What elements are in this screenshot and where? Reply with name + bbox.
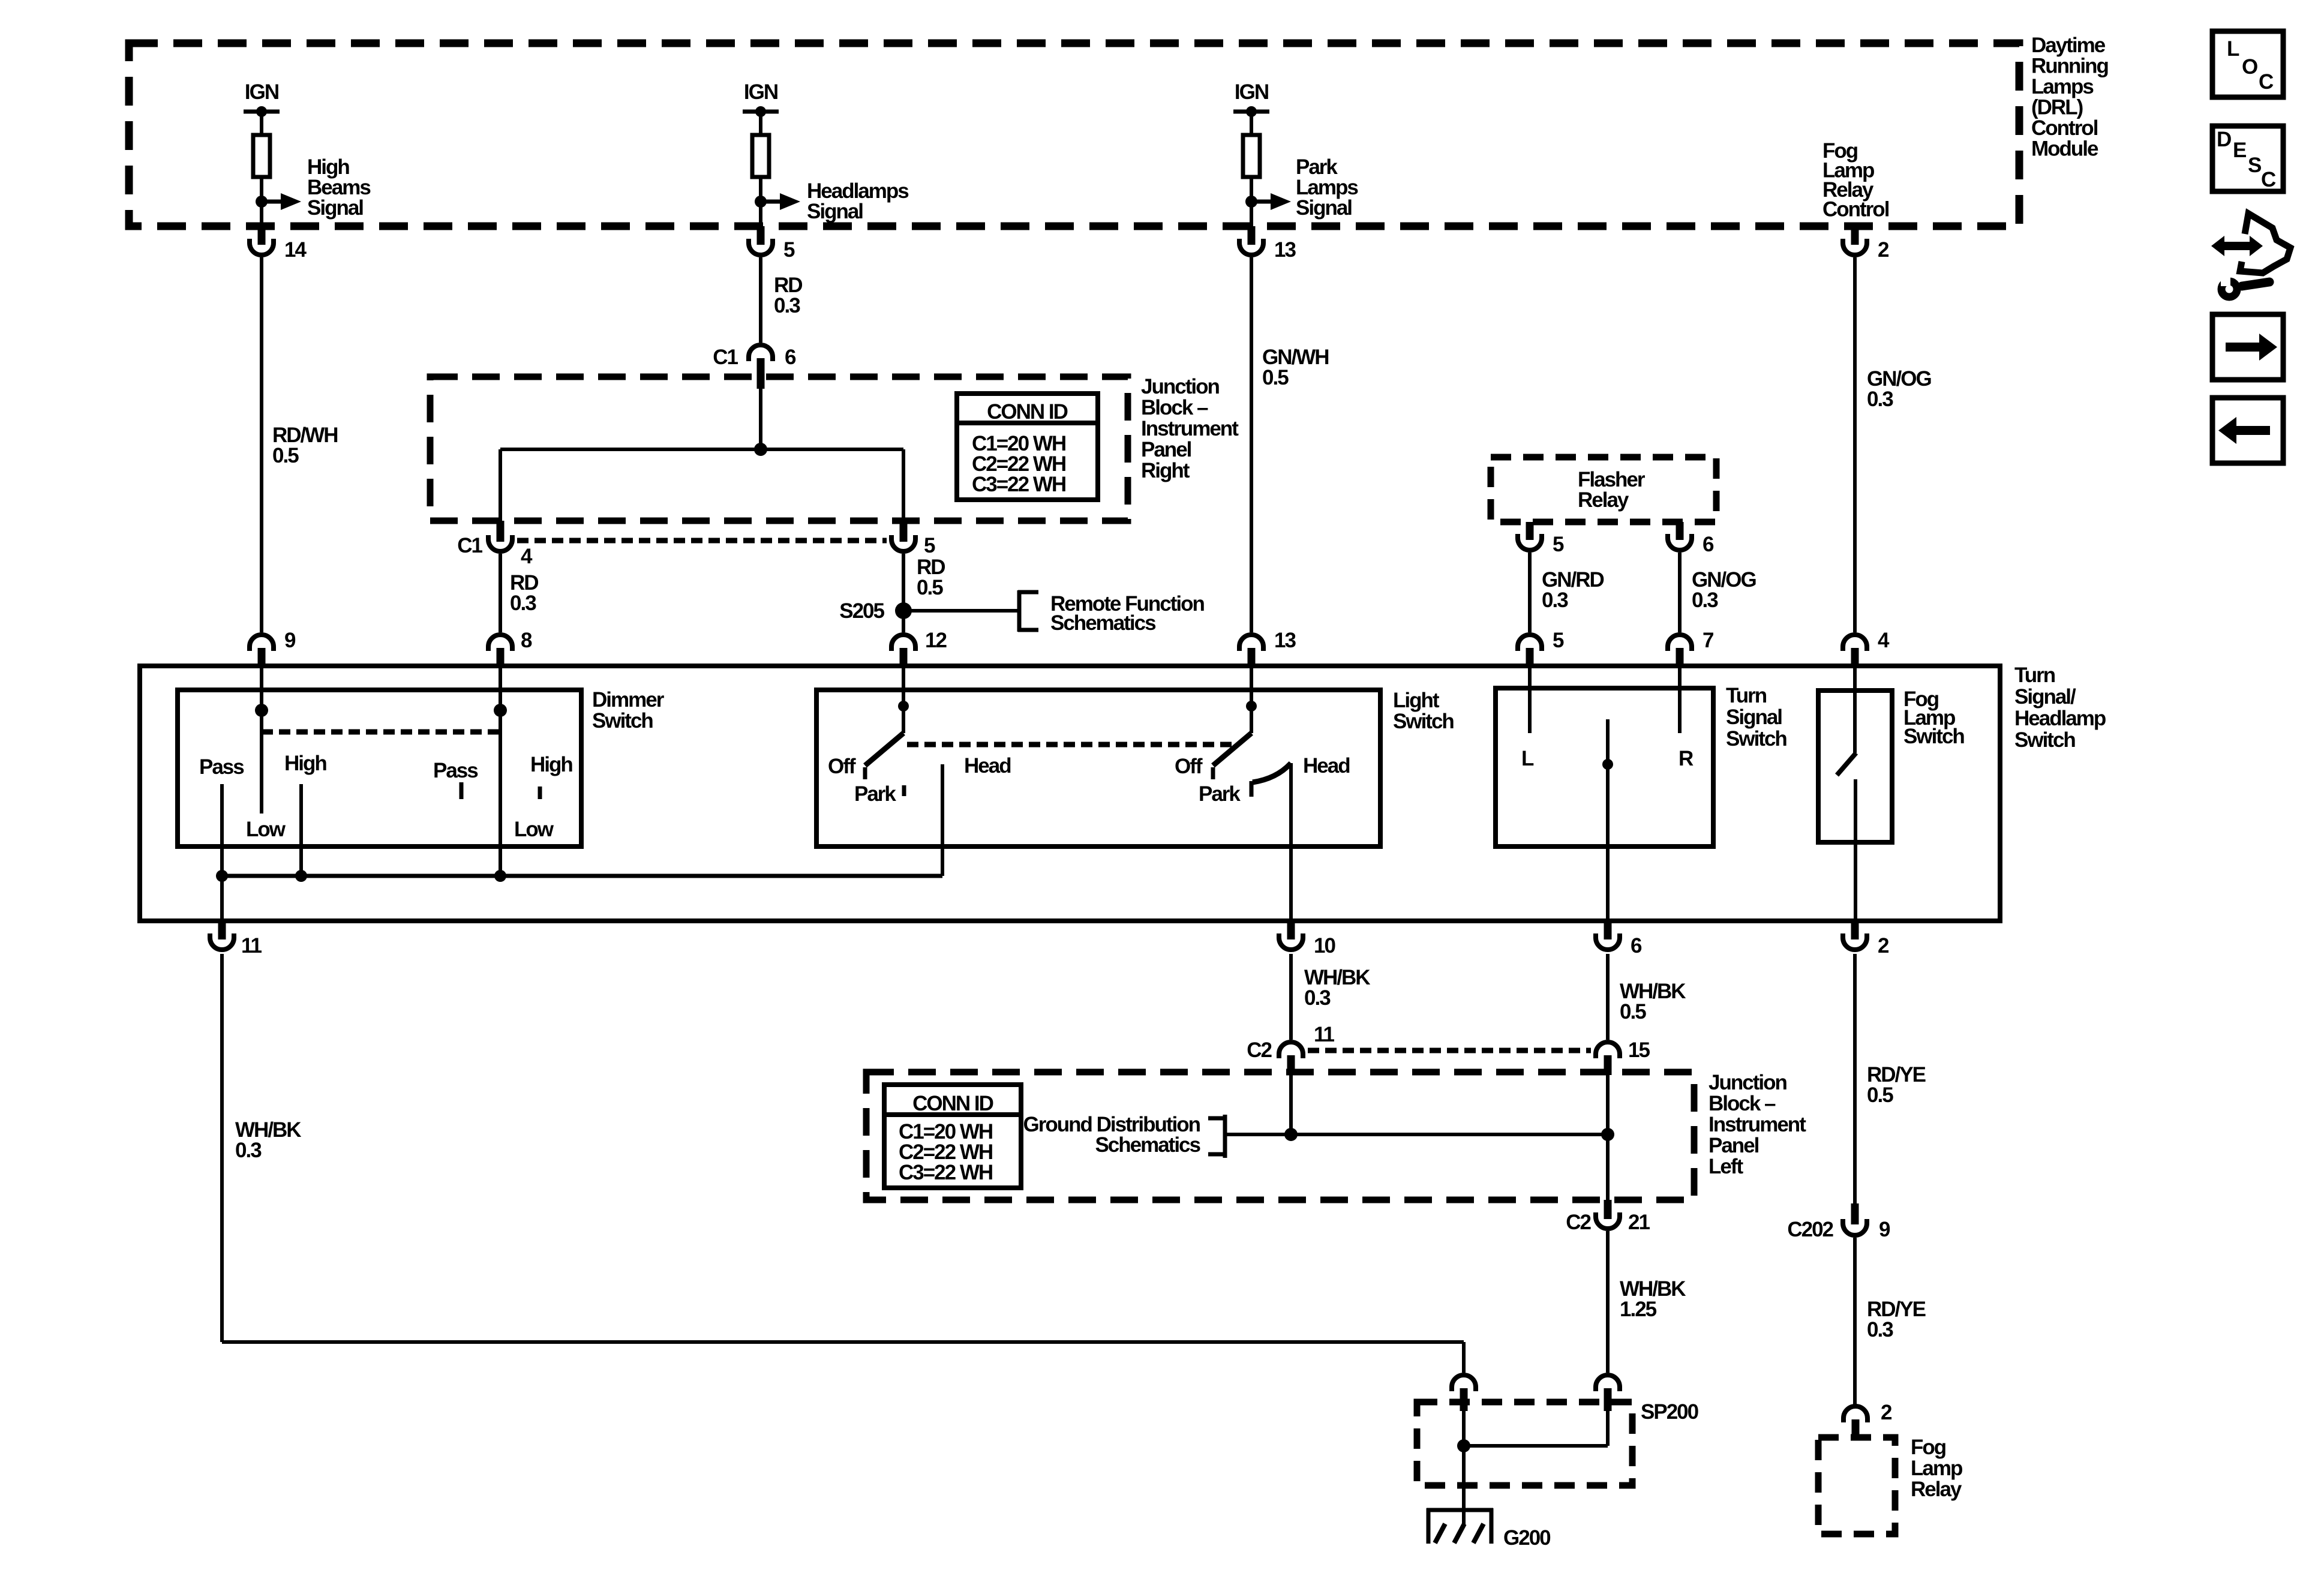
wire WH/BK 0.5 (pin 6 to connector 15)	[1606, 954, 1610, 1040]
light switch right head-position curve	[1253, 763, 1291, 782]
wire pin 9 into dimmer (Low feed left)	[260, 666, 263, 813]
svg-text:C1=20 WHC2=22 WHC3=22 WH: C1=20 WHC2=22 WHC3=22 WH	[899, 1120, 992, 1184]
fog lamp switch blade (open)	[1837, 753, 1856, 775]
light switch left Park contact tick	[902, 785, 906, 796]
connector C2 alignment dotted line (pins 11-15)	[1308, 1048, 1591, 1053]
wire pin 8 into dimmer through to bus	[499, 666, 502, 876]
junction dot dimmer left	[255, 704, 268, 717]
fog switch lower contact wire to pin 2	[1854, 779, 1857, 921]
svg-text:G200: G200	[1503, 1526, 1551, 1550]
svg-text:L: L	[2227, 37, 2239, 61]
svg-text:4: 4	[521, 545, 533, 568]
connector pin 2 (DRL fog lamp relay control output)	[1851, 226, 1859, 245]
wire pin 12 into light switch	[902, 666, 905, 733]
svg-text:RD0.3: RD0.3	[774, 274, 802, 317]
svg-text:Pass: Pass	[199, 755, 244, 779]
wire inside junction block right from C1-6	[759, 387, 762, 449]
svg-text:Park: Park	[854, 782, 896, 806]
connector C1 alignment dotted line (pins 4-5)	[517, 538, 887, 544]
wire RD 0.3 (pin 5 to C1-6)	[759, 257, 762, 343]
wire WH/BK 0.3 (pin 11 down and across to SP200)	[220, 954, 224, 1342]
svg-text:Head: Head	[964, 754, 1011, 778]
wire pin 5 to L terminal	[1528, 666, 1532, 733]
Fog Lamp Switch box	[1818, 691, 1892, 842]
svg-text:Park: Park	[1199, 782, 1241, 806]
connector C2 pin 11	[1279, 1042, 1303, 1058]
Daytime Running Lamps (DRL) Control Module dashed box	[129, 43, 2019, 226]
ground bus junction dot right	[1601, 1128, 1614, 1141]
svg-text:C1=20 WHC2=22 WHC3=22 WH: C1=20 WHC2=22 WHC3=22 WH	[972, 432, 1065, 496]
svg-text:D: D	[2217, 128, 2231, 151]
svg-text:7: 7	[1703, 629, 1713, 652]
svg-text:IGN: IGN	[1235, 80, 1268, 104]
Junction Block - Instrument Panel Right dashed box	[430, 377, 1128, 521]
svg-text:15: 15	[1628, 1038, 1650, 1062]
connector pin 6 (flasher relay)	[1676, 522, 1684, 540]
light switch left lever	[865, 733, 903, 766]
svg-text:5: 5	[1553, 629, 1564, 652]
wire RD 0.5 (pin 5 to S205)	[902, 554, 905, 603]
light switch left Head terminal wire to bus	[941, 764, 944, 876]
svg-text:9: 9	[1879, 1218, 1890, 1241]
dimmer right Pass contact tick	[460, 782, 464, 799]
wire RD 0.3 (C1-4 to dimmer pin 8)	[499, 554, 502, 632]
connector pin 15 (junction block left)	[1596, 1042, 1620, 1058]
connector pin 8 (dimmer switch)	[488, 635, 512, 651]
SP200 internal right wire	[1606, 1410, 1610, 1446]
Turn Signal Switch box	[1496, 688, 1713, 846]
splice S205	[895, 602, 912, 619]
junction dot dimmer right	[494, 704, 507, 717]
ground bus junction dot left	[1284, 1128, 1298, 1141]
svg-text:Low: Low	[246, 818, 286, 841]
wire IGN3 resistor to module edge	[1250, 177, 1253, 226]
svg-text:C2: C2	[1247, 1038, 1272, 1062]
svg-text:SP200: SP200	[1641, 1400, 1699, 1424]
wire pin 4 to fog switch contact	[1853, 666, 1857, 753]
wire GN/RD 0.3 (flasher 5 to switch pin 5)	[1528, 553, 1532, 632]
svg-text:6: 6	[1703, 533, 1714, 556]
connector pin 5 (junction right bottom)	[900, 521, 908, 542]
svg-text:Pass: Pass	[433, 759, 478, 782]
svg-text:11: 11	[241, 934, 262, 957]
light switch right lever	[1213, 733, 1251, 766]
bus junction dots	[216, 870, 228, 882]
dimmer output bus wire	[222, 874, 942, 878]
wire C2-11 to ground bus	[1289, 1075, 1293, 1134]
light switch right Off contact tick	[1211, 767, 1215, 779]
svg-text:IGN: IGN	[744, 80, 777, 104]
connector pin 13 (DRL park lamps output)	[1248, 226, 1256, 245]
off-page bracket ground distribution	[1223, 1115, 1227, 1158]
connector pin 4 (fog lamp switch)	[1843, 635, 1867, 651]
wire RD/YE 0.5 (pin 2 to C202)	[1853, 954, 1857, 1203]
svg-text:Off: Off	[1175, 755, 1203, 778]
wire branch to pin 5 junction right	[902, 449, 905, 521]
wire RD/YE 0.3 (C202 to fog lamp relay)	[1853, 1238, 1857, 1404]
connector pin 7 (turn signal switch)	[1668, 635, 1692, 651]
wire IGN1 to resistor	[260, 112, 263, 135]
CONN ID table (junction block right)	[957, 394, 1098, 500]
DESC icon box	[2212, 126, 2283, 191]
wire branch to C1-4	[499, 449, 502, 521]
SP200 left connector	[1452, 1375, 1476, 1391]
connector C1 pin 6	[749, 345, 773, 361]
svg-text:CONN ID: CONN ID	[987, 400, 1068, 424]
junction splice inside junction block right	[754, 443, 767, 456]
svg-text:5: 5	[783, 238, 795, 262]
resistor IGN2 (DRL internal)	[752, 135, 769, 177]
connector pin 12 (light switch)	[891, 635, 915, 651]
light switch mechanical link dotted line	[907, 742, 1235, 748]
connector pin 9 (dimmer switch)	[250, 635, 274, 651]
svg-text:C2: C2	[1566, 1211, 1591, 1234]
connector C2 pin 21	[1604, 1200, 1612, 1219]
svg-text:11: 11	[1314, 1023, 1335, 1046]
connector pin 5 (flasher relay)	[1526, 522, 1534, 540]
off-page bracket remote function schematics	[1017, 590, 1022, 632]
connector pin 2 (fog switch output)	[1851, 921, 1859, 939]
wire GN/OG 0.3 (pin 2 to fog lamp switch pin 4)	[1853, 257, 1857, 632]
svg-text:21: 21	[1628, 1211, 1650, 1234]
right arrow icon box	[2212, 314, 2283, 380]
connector pin 13 (light switch)	[1239, 635, 1263, 651]
wire IGN1 resistor to module edge	[260, 177, 263, 226]
SP200 right connector	[1596, 1375, 1620, 1391]
svg-text:RD0.5: RD0.5	[917, 556, 945, 599]
svg-text:13: 13	[1274, 238, 1296, 262]
wire GN/WH 0.5 (pin 13 to light switch pin 13)	[1250, 257, 1253, 632]
Dimmer Switch box	[178, 690, 581, 846]
wire pin 7 to R terminal	[1678, 666, 1682, 733]
SP200 internal splice dot	[1457, 1439, 1470, 1452]
ground bus wire inside junction block left	[1225, 1133, 1608, 1136]
svg-text:RD0.3: RD0.3	[510, 571, 538, 615]
svg-text:Low: Low	[514, 818, 554, 841]
wire bus to pin 11	[220, 876, 224, 921]
headlamps signal tap junction and arrow	[755, 196, 767, 208]
light switch left pivot dot	[898, 701, 909, 712]
svg-text:9: 9	[284, 629, 296, 652]
dimmer right High contact tick	[538, 786, 542, 799]
svg-text:S205: S205	[839, 599, 884, 623]
ground G200 symbol	[1427, 1508, 1493, 1512]
connector pin 10 (light switch head output)	[1287, 921, 1295, 939]
svg-text:C202: C202	[1787, 1218, 1833, 1241]
connector pin 2 (fog lamp relay)	[1843, 1406, 1867, 1422]
light switch right Park contact tick	[1250, 781, 1254, 797]
connector pin 14 (DRL high beams output)	[258, 226, 266, 245]
svg-text:High: High	[530, 753, 572, 776]
Junction Block - Instrument Panel Left dashed box	[866, 1072, 1694, 1200]
wire S205 to pin 12	[902, 619, 905, 632]
svg-text:2: 2	[1878, 934, 1889, 957]
splice pack SP200 dashed box	[1417, 1402, 1632, 1485]
resistor IGN3 (DRL internal)	[1243, 135, 1260, 177]
park lamps signal tap junction and arrow	[1245, 196, 1257, 208]
svg-text:12: 12	[925, 629, 947, 652]
connector C1 pin 4	[497, 521, 505, 542]
connector C202 pin 9	[1851, 1203, 1859, 1224]
wire WH/BK 1.25 (C2-21 to SP200)	[1606, 1231, 1610, 1373]
SP200 internal bus	[1464, 1444, 1608, 1448]
svg-text:CONN ID: CONN ID	[912, 1092, 993, 1115]
svg-text:L: L	[1521, 747, 1534, 770]
resistor IGN1 (DRL internal)	[253, 135, 270, 177]
wire RD/WH 0.5 (pin 14 to dimmer pin 9)	[260, 257, 263, 632]
svg-text:O: O	[2242, 55, 2257, 79]
wire GN/OG 0.3 (flasher 6 to switch pin 7)	[1678, 553, 1682, 632]
svg-text:6: 6	[785, 346, 796, 369]
dimmer mechanical link dotted line	[262, 730, 500, 735]
svg-text:Head: Head	[1303, 754, 1350, 778]
svg-text:13: 13	[1274, 629, 1296, 652]
svg-text:R: R	[1679, 747, 1694, 770]
svg-text:5: 5	[1553, 533, 1564, 556]
LOC icon box	[2212, 31, 2283, 97]
svg-text:Schematics: Schematics	[1095, 1133, 1200, 1157]
svg-text:IGN: IGN	[245, 80, 278, 104]
Flasher Relay dashed box	[1491, 457, 1716, 522]
SP200 internal left wire	[1462, 1410, 1466, 1509]
svg-text:High: High	[284, 752, 326, 775]
svg-text:10: 10	[1314, 934, 1335, 957]
svg-text:C1: C1	[457, 534, 482, 557]
wire IGN3 to resistor	[1250, 112, 1253, 135]
dimmer Pass terminal wire	[220, 784, 224, 876]
high beams signal tap junction and arrow	[256, 196, 268, 208]
wire pin 15 through junction block left	[1606, 1075, 1610, 1200]
wire WH/BK 0.3 (pin 10 to C2-11)	[1289, 954, 1293, 1040]
svg-text:6: 6	[1631, 934, 1642, 957]
left arrow icon box	[2212, 398, 2283, 463]
wire IGN2 to resistor	[759, 112, 762, 135]
svg-text:5: 5	[924, 534, 935, 557]
svg-text:E: E	[2233, 139, 2246, 162]
turn signal common junction dot	[1602, 759, 1613, 770]
svg-text:8: 8	[521, 629, 532, 652]
svg-text:14: 14	[284, 238, 307, 262]
svg-text:2: 2	[1881, 1401, 1892, 1424]
wire S205 to remote function schematics bracket	[911, 609, 1017, 613]
connector pin 11 (dimmer output)	[218, 921, 226, 939]
Turn Signal / Headlamp Switch outer box	[140, 666, 2000, 921]
Light Switch box	[816, 690, 1380, 846]
svg-text:4: 4	[1878, 629, 1890, 652]
light switch Head terminal wire to pin 10	[1289, 763, 1293, 921]
Fog Lamp Relay dashed box	[1818, 1437, 1895, 1534]
svg-text:S: S	[2248, 154, 2261, 177]
svg-text:Off: Off	[828, 755, 856, 778]
connector pin 5 (turn signal switch)	[1518, 635, 1542, 651]
connector pin 6 (turn signal common)	[1604, 921, 1612, 939]
svg-text:C: C	[2261, 168, 2276, 191]
light switch left Off contact tick	[863, 767, 867, 779]
wire IGN2 resistor to module edge	[759, 177, 762, 226]
svg-text:2: 2	[1878, 238, 1889, 262]
svg-text:C: C	[2259, 70, 2274, 94]
turn signal common wire to pin 6	[1606, 719, 1610, 921]
CONN ID table (junction block left)	[884, 1085, 1021, 1188]
light switch right pivot dot	[1246, 701, 1257, 712]
connector pin 5 (DRL headlamps output)	[757, 226, 765, 245]
dimmer High terminal wire	[299, 784, 303, 876]
wire pin 13 into light switch	[1250, 666, 1253, 733]
wrench/diagnostic icon	[2211, 214, 2290, 297]
svg-text:C1: C1	[713, 346, 738, 369]
